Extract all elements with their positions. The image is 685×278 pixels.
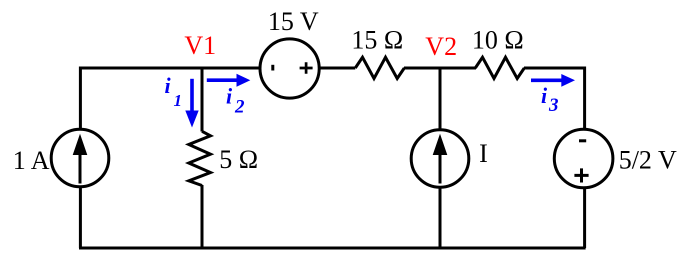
svg-text:i: i <box>541 83 548 108</box>
resistor R 15 ohm <box>355 57 404 78</box>
voltage source 15V circle <box>260 39 319 98</box>
5/2V plus sign <box>574 168 588 182</box>
svg-text:i: i <box>165 73 172 98</box>
wire 15V source to 15-ohm resistor <box>319 67 355 70</box>
resistor R 10 ohm <box>475 57 524 78</box>
current source 1A arrow <box>79 152 82 184</box>
svg-text:1 A: 1 A <box>13 146 50 175</box>
svg-text:V1: V1 <box>184 31 216 60</box>
svg-text:V2: V2 <box>425 32 457 61</box>
current source I arrow <box>439 152 442 184</box>
svg-text:I: I <box>479 139 488 168</box>
wire node V2 vertical <box>439 68 442 131</box>
voltage source 5/2V circle <box>554 129 613 188</box>
svg-text:3: 3 <box>548 95 559 116</box>
svg-text:15 Ω: 15 Ω <box>351 26 403 55</box>
5/2V minus sign <box>579 139 586 142</box>
wire left lower vertical <box>79 186 82 248</box>
svg-text:5 Ω: 5 Ω <box>219 145 258 174</box>
current source I circle <box>411 130 469 188</box>
svg-text:5/2 V: 5/2 V <box>619 146 677 175</box>
resistor R 5 ohm <box>189 131 211 185</box>
15V plus sign <box>300 62 313 74</box>
current source 1A circle <box>51 129 109 187</box>
wire node V1 vertical <box>201 68 204 132</box>
wire bottom <box>79 247 586 250</box>
svg-text:2: 2 <box>234 96 245 117</box>
wire right lower vertical <box>583 188 586 248</box>
svg-text:i: i <box>226 83 233 108</box>
15V minus tick <box>271 65 274 71</box>
svg-text:15 V: 15 V <box>268 7 319 36</box>
wire 15-ohm to 10-ohm through node V2 <box>404 67 476 70</box>
current arrow i3 <box>531 79 562 83</box>
wire top-left: left corner to 15V source <box>80 68 261 130</box>
wire top-right corner down to 5/2V source <box>524 68 585 131</box>
svg-text:1: 1 <box>174 91 183 110</box>
wire below I source <box>439 186 442 248</box>
wire below 5 ohm <box>201 185 204 248</box>
svg-text:10 Ω: 10 Ω <box>472 26 524 55</box>
current arrow i2 <box>207 78 238 82</box>
current arrow i1 <box>190 79 194 112</box>
